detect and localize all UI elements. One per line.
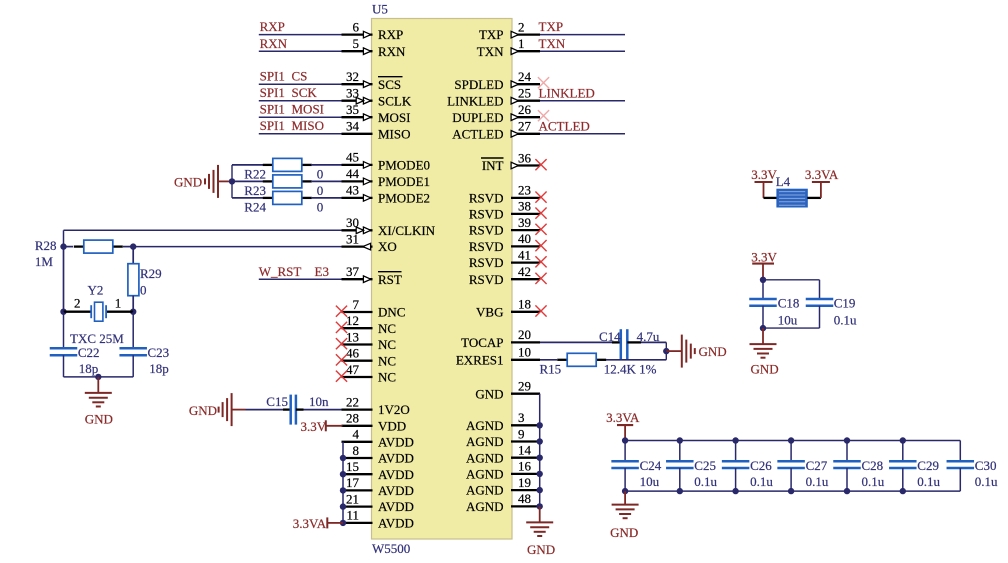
svg-text:27: 27 bbox=[518, 119, 532, 134]
svg-text:C19: C19 bbox=[834, 295, 856, 310]
svg-text:16: 16 bbox=[518, 459, 532, 474]
svg-text:NC: NC bbox=[378, 337, 396, 352]
svg-text:MOSI: MOSI bbox=[292, 102, 325, 117]
svg-text:VDD: VDD bbox=[378, 418, 406, 433]
svg-text:47: 47 bbox=[346, 362, 360, 377]
svg-text:3.3VA: 3.3VA bbox=[293, 516, 327, 531]
svg-text:C23: C23 bbox=[148, 345, 170, 360]
svg-text:SPI1: SPI1 bbox=[260, 118, 285, 133]
svg-text:31: 31 bbox=[346, 231, 359, 246]
svg-text:42: 42 bbox=[518, 264, 531, 279]
svg-text:RSVD: RSVD bbox=[469, 239, 504, 254]
svg-text:SPI1: SPI1 bbox=[260, 85, 285, 100]
svg-text:R24: R24 bbox=[244, 200, 266, 215]
svg-text:18: 18 bbox=[518, 297, 531, 312]
svg-text:GND: GND bbox=[174, 174, 202, 189]
svg-text:19: 19 bbox=[518, 475, 531, 490]
svg-text:AGND: AGND bbox=[466, 450, 504, 465]
svg-text:0.1u: 0.1u bbox=[834, 312, 857, 327]
svg-text:0.1u: 0.1u bbox=[917, 474, 940, 489]
svg-text:GND: GND bbox=[751, 361, 779, 376]
svg-text:11: 11 bbox=[346, 508, 359, 523]
svg-text:14: 14 bbox=[518, 443, 532, 458]
svg-text:TXC 25M: TXC 25M bbox=[70, 331, 124, 346]
svg-text:VBG: VBG bbox=[476, 304, 503, 319]
svg-text:C14: C14 bbox=[599, 329, 621, 344]
svg-text:3.3VA: 3.3VA bbox=[805, 167, 839, 182]
svg-text:46: 46 bbox=[346, 346, 360, 361]
svg-text:XO: XO bbox=[378, 239, 397, 254]
svg-text:18p: 18p bbox=[79, 361, 99, 376]
svg-text:2: 2 bbox=[518, 19, 525, 34]
svg-text:GND: GND bbox=[85, 412, 113, 427]
svg-text:RSVD: RSVD bbox=[469, 255, 504, 270]
svg-text:C18: C18 bbox=[778, 295, 800, 310]
svg-text:25: 25 bbox=[518, 86, 531, 101]
svg-text:MISO: MISO bbox=[292, 118, 325, 133]
svg-text:9: 9 bbox=[518, 426, 525, 441]
svg-text:1: 1 bbox=[518, 36, 525, 51]
svg-text:GND: GND bbox=[699, 344, 727, 359]
svg-text:GND: GND bbox=[610, 525, 638, 540]
svg-text:R29: R29 bbox=[140, 266, 162, 281]
svg-text:20: 20 bbox=[518, 327, 531, 342]
svg-text:35: 35 bbox=[346, 102, 359, 117]
svg-text:22: 22 bbox=[346, 394, 359, 409]
svg-text:0.1u: 0.1u bbox=[862, 474, 885, 489]
svg-text:1: 1 bbox=[115, 295, 122, 310]
svg-text:0.1u: 0.1u bbox=[750, 474, 773, 489]
svg-text:0: 0 bbox=[317, 183, 324, 198]
svg-text:36: 36 bbox=[518, 150, 532, 165]
svg-text:24: 24 bbox=[518, 69, 532, 84]
svg-text:29: 29 bbox=[518, 379, 531, 394]
svg-text:TXN: TXN bbox=[477, 44, 504, 59]
svg-text:ACTLED: ACTLED bbox=[452, 126, 503, 141]
svg-text:DUPLED: DUPLED bbox=[452, 110, 503, 125]
svg-text:AGND: AGND bbox=[466, 418, 504, 433]
svg-text:RXP: RXP bbox=[260, 19, 285, 34]
svg-text:AGND: AGND bbox=[466, 434, 504, 449]
svg-text:0.1u: 0.1u bbox=[694, 474, 717, 489]
svg-text:AVDD: AVDD bbox=[378, 499, 414, 514]
svg-text:RSVD: RSVD bbox=[469, 272, 504, 287]
svg-text:15: 15 bbox=[346, 459, 359, 474]
svg-text:45: 45 bbox=[346, 150, 359, 165]
svg-text:C28: C28 bbox=[862, 458, 884, 473]
svg-text:TXP: TXP bbox=[479, 27, 504, 42]
svg-text:EXRES1: EXRES1 bbox=[456, 352, 504, 367]
svg-text:13: 13 bbox=[346, 329, 359, 344]
svg-text:R28: R28 bbox=[35, 238, 57, 253]
svg-text:10: 10 bbox=[518, 345, 531, 360]
svg-text:12.4K 1%: 12.4K 1% bbox=[604, 362, 657, 377]
svg-text:RSVD: RSVD bbox=[469, 191, 504, 206]
svg-text:18p: 18p bbox=[149, 361, 169, 376]
svg-text:1V2O: 1V2O bbox=[378, 402, 410, 417]
svg-text:CS: CS bbox=[292, 69, 308, 84]
svg-text:C26: C26 bbox=[750, 458, 772, 473]
svg-text:MOSI: MOSI bbox=[378, 110, 411, 125]
svg-text:GND: GND bbox=[527, 542, 555, 557]
svg-text:RXP: RXP bbox=[378, 27, 403, 42]
svg-text:AGND: AGND bbox=[466, 483, 504, 498]
svg-text:5: 5 bbox=[353, 36, 360, 51]
svg-text:1M: 1M bbox=[35, 254, 54, 269]
svg-text:TXN: TXN bbox=[539, 36, 566, 51]
svg-text:3.3V: 3.3V bbox=[301, 419, 327, 434]
svg-text:10n: 10n bbox=[309, 394, 329, 409]
svg-text:PMODE0: PMODE0 bbox=[378, 158, 430, 173]
svg-text:43: 43 bbox=[346, 183, 359, 198]
svg-text:4: 4 bbox=[353, 427, 360, 442]
svg-text:SCK: SCK bbox=[292, 85, 318, 100]
svg-text:C27: C27 bbox=[806, 458, 828, 473]
svg-text:28: 28 bbox=[346, 411, 359, 426]
svg-text:48: 48 bbox=[518, 491, 531, 506]
svg-text:NC: NC bbox=[378, 321, 396, 336]
svg-text:3.3V: 3.3V bbox=[751, 250, 777, 265]
svg-text:AVDD: AVDD bbox=[378, 434, 414, 449]
svg-text:Y2: Y2 bbox=[88, 283, 104, 298]
svg-text:R22: R22 bbox=[244, 167, 266, 182]
svg-text:U5: U5 bbox=[372, 2, 388, 17]
svg-text:R15: R15 bbox=[540, 362, 562, 377]
svg-text:3: 3 bbox=[518, 410, 525, 425]
svg-text:C22: C22 bbox=[78, 345, 100, 360]
svg-text:10u: 10u bbox=[640, 474, 660, 489]
svg-text:17: 17 bbox=[346, 475, 360, 490]
svg-text:39: 39 bbox=[518, 215, 531, 230]
svg-text:34: 34 bbox=[346, 119, 360, 134]
svg-text:23: 23 bbox=[518, 183, 531, 198]
svg-text:LINKLED: LINKLED bbox=[447, 93, 503, 108]
svg-text:R23: R23 bbox=[244, 183, 266, 198]
svg-text:6: 6 bbox=[353, 19, 360, 34]
svg-text:7: 7 bbox=[353, 297, 360, 312]
svg-text:0: 0 bbox=[317, 167, 324, 182]
svg-text:PMODE1: PMODE1 bbox=[378, 174, 430, 189]
svg-text:38: 38 bbox=[518, 199, 531, 214]
svg-text:INT: INT bbox=[482, 158, 504, 173]
svg-text:C15: C15 bbox=[266, 394, 288, 409]
svg-text:10u: 10u bbox=[778, 312, 798, 327]
svg-text:C24: C24 bbox=[640, 458, 662, 473]
svg-text:3.3V: 3.3V bbox=[751, 167, 777, 182]
svg-text:TXP: TXP bbox=[539, 19, 564, 34]
svg-text:0.1u: 0.1u bbox=[806, 474, 829, 489]
svg-text:SCS: SCS bbox=[378, 77, 401, 92]
svg-text:C30: C30 bbox=[975, 458, 997, 473]
svg-text:RSVD: RSVD bbox=[469, 223, 504, 238]
svg-text:E3: E3 bbox=[315, 264, 329, 279]
svg-text:C29: C29 bbox=[917, 458, 939, 473]
svg-text:32: 32 bbox=[346, 69, 359, 84]
svg-text:SPI1: SPI1 bbox=[260, 69, 285, 84]
svg-text:GND: GND bbox=[475, 386, 503, 401]
svg-text:0.1u: 0.1u bbox=[975, 474, 998, 489]
svg-text:2: 2 bbox=[74, 295, 81, 310]
svg-text:AVDD: AVDD bbox=[378, 467, 414, 482]
svg-text:SPI1: SPI1 bbox=[260, 102, 285, 117]
svg-text:12: 12 bbox=[346, 313, 359, 328]
svg-text:AVDD: AVDD bbox=[378, 516, 414, 531]
svg-text:NC: NC bbox=[378, 370, 396, 385]
svg-text:PMODE2: PMODE2 bbox=[378, 191, 430, 206]
svg-text:L4: L4 bbox=[776, 174, 791, 189]
svg-text:LINKLED: LINKLED bbox=[539, 85, 595, 100]
svg-text:SCLK: SCLK bbox=[378, 93, 412, 108]
svg-text:37: 37 bbox=[346, 264, 360, 279]
svg-text:AVDD: AVDD bbox=[378, 451, 414, 466]
svg-text:26: 26 bbox=[518, 102, 532, 117]
svg-text:AVDD: AVDD bbox=[378, 483, 414, 498]
svg-text:21: 21 bbox=[346, 491, 359, 506]
svg-text:XI/CLKIN: XI/CLKIN bbox=[378, 223, 436, 238]
svg-text:RST: RST bbox=[378, 272, 402, 287]
svg-text:DNC: DNC bbox=[378, 305, 405, 320]
svg-text:NC: NC bbox=[378, 353, 396, 368]
svg-text:RXN: RXN bbox=[260, 36, 288, 51]
svg-text:W5500: W5500 bbox=[372, 541, 410, 556]
svg-text:RXN: RXN bbox=[378, 44, 406, 59]
svg-text:44: 44 bbox=[346, 166, 360, 181]
svg-text:3.3VA: 3.3VA bbox=[606, 410, 640, 425]
svg-text:RSVD: RSVD bbox=[469, 207, 504, 222]
svg-text:8: 8 bbox=[353, 443, 360, 458]
svg-text:TOCAP: TOCAP bbox=[461, 335, 503, 350]
svg-text:AGND: AGND bbox=[466, 499, 504, 514]
svg-text:GND: GND bbox=[189, 403, 217, 418]
svg-text:C25: C25 bbox=[694, 458, 716, 473]
svg-text:ACTLED: ACTLED bbox=[539, 118, 590, 133]
svg-text:AGND: AGND bbox=[466, 467, 504, 482]
svg-text:SPDLED: SPDLED bbox=[454, 77, 503, 92]
svg-text:MISO: MISO bbox=[378, 126, 411, 141]
svg-text:4.7u: 4.7u bbox=[637, 329, 660, 344]
svg-text:0: 0 bbox=[317, 200, 324, 215]
svg-text:41: 41 bbox=[518, 247, 531, 262]
svg-text:40: 40 bbox=[518, 231, 531, 246]
svg-text:0: 0 bbox=[140, 282, 147, 297]
svg-text:W_RST: W_RST bbox=[259, 264, 302, 279]
